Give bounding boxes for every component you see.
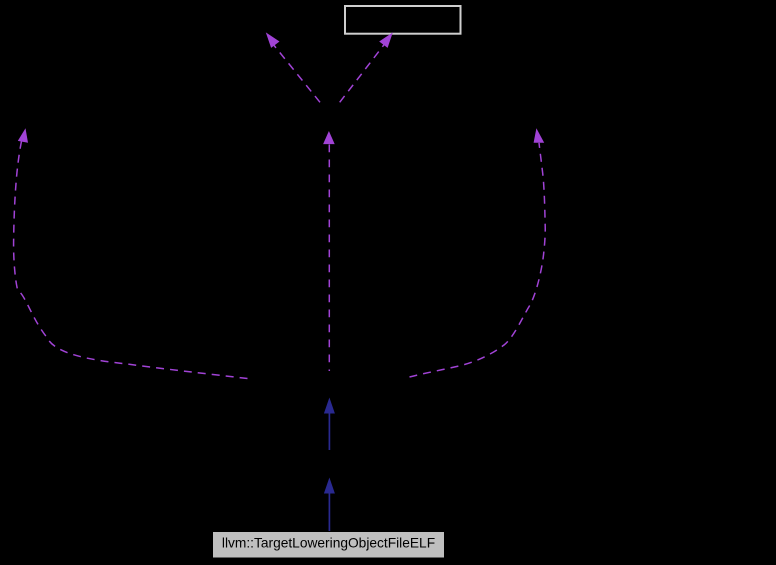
svg-text:llvm::TargetLoweringObjectFile: llvm::TargetLoweringObjectFileELF [222, 536, 435, 551]
